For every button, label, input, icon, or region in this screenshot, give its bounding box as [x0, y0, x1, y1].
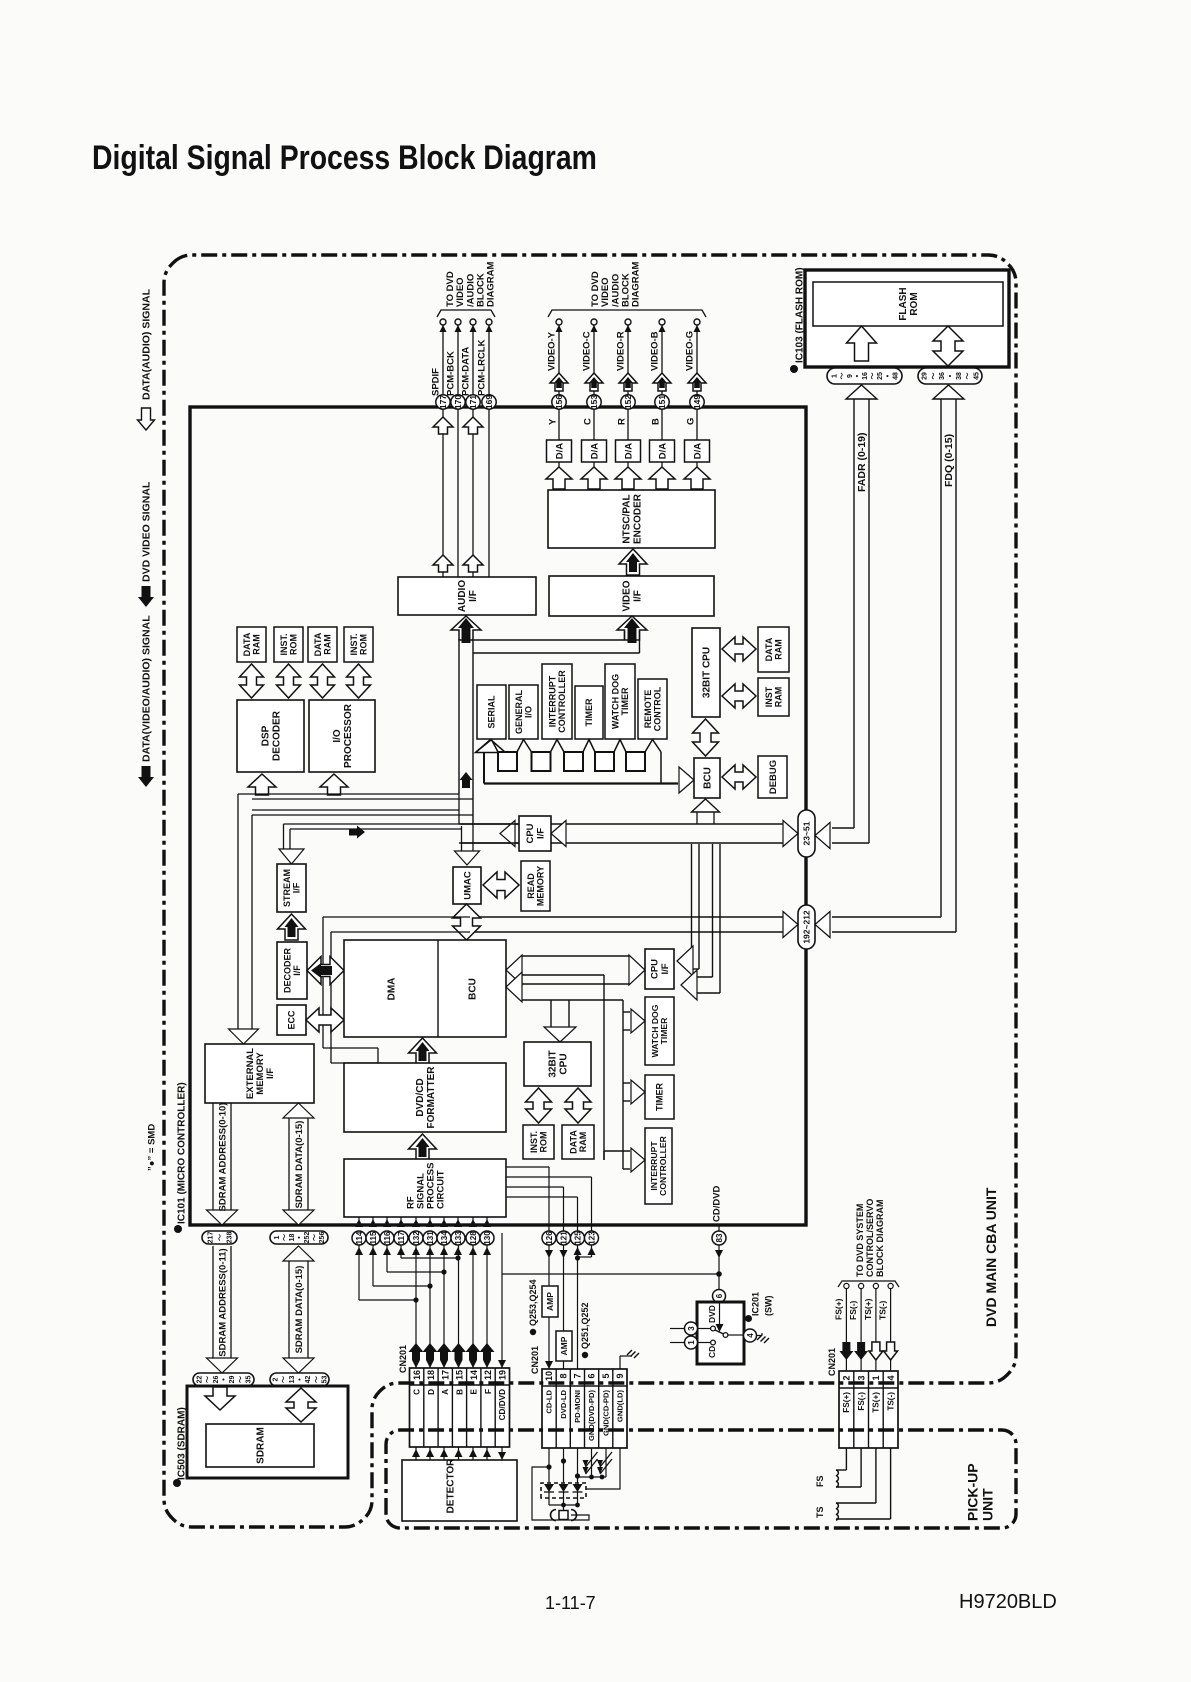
arrowhead under pin 131	[426, 1247, 434, 1255]
svg-text:8: 8	[558, 1373, 568, 1378]
arrowhead bus to left of CPU I/F	[500, 821, 515, 847]
laser diode at col 577.5	[573, 1484, 583, 1492]
arrowhead into 192~212 right	[815, 912, 830, 938]
svg-text:DECODER: DECODER	[272, 710, 283, 761]
svg-text:GND(DVD-PD): GND(DVD-PD)	[587, 1390, 596, 1442]
svg-text:RAM: RAM	[322, 634, 332, 655]
svg-text:16: 16	[412, 1370, 422, 1380]
IC101 micro controller outline	[190, 407, 806, 1225]
svg-text:152: 152	[623, 395, 633, 409]
svg-text:FS(+): FS(+)	[833, 1298, 843, 1320]
arrowhead into UMAC	[455, 851, 480, 865]
terminal circle VIDEO-G	[694, 319, 700, 325]
svg-text:149: 149	[692, 395, 702, 409]
terminal circle PCM-LRCLK	[486, 319, 492, 325]
svg-text:C: C	[582, 418, 593, 425]
block DMA / BCU	[344, 940, 506, 1037]
svg-text:CPU: CPU	[525, 823, 536, 843]
svg-text:53: 53	[322, 1376, 329, 1384]
switch pin 1	[685, 1336, 698, 1349]
arrow 32BIT CPU - INST. ROM	[526, 1088, 552, 1123]
FS coil	[845, 1448, 847, 1470]
block REMOTE CONTROL	[638, 679, 667, 739]
svg-text:6: 6	[715, 1293, 724, 1298]
svg-text:153: 153	[589, 395, 599, 409]
svg-text:D/A: D/A	[657, 443, 668, 460]
svg-text:RAM: RAM	[774, 687, 784, 708]
arrowhead into 23~51 right	[815, 823, 830, 849]
arrowhead under pin 117	[397, 1247, 405, 1255]
bus FDQ elbow to 192-212	[832, 916, 941, 918]
svg-text:192~212: 192~212	[802, 910, 812, 944]
arrow BCU - DEBUG	[722, 765, 756, 789]
svg-text:ENCODER: ENCODER	[633, 493, 644, 544]
block INTERRUPT CONTROLLER (lower)	[645, 1128, 672, 1204]
laser diode at col 563.5	[559, 1484, 569, 1492]
svg-text:NTSC/PAL: NTSC/PAL	[622, 494, 633, 543]
svg-text:Y: Y	[547, 418, 558, 425]
svg-text:UMAC: UMAC	[462, 871, 473, 900]
svg-text:TO DVD SYSTEM: TO DVD SYSTEM	[855, 1204, 865, 1277]
block DATA RAM (DSP)	[237, 627, 266, 662]
wire PCM-LRCLK	[488, 322, 490, 577]
stub RF pin 114	[358, 1217, 360, 1227]
IC503 reference label	[173, 1479, 181, 1487]
terminal circle TS(-)	[888, 1283, 893, 1288]
svg-text:CPU: CPU	[559, 1053, 570, 1074]
block UMAC	[453, 867, 481, 904]
svg-text:38: 38	[956, 372, 963, 380]
black arrow pickup signal col 1	[409, 1343, 424, 1360]
label Q251,Q252	[582, 1352, 588, 1358]
svg-text:217: 217	[208, 1232, 215, 1244]
wire VIDEO-B	[661, 322, 663, 440]
svg-text:FLASH: FLASH	[898, 287, 909, 320]
I/O port square 2	[532, 752, 551, 771]
arrow bus to I/O PROCESSOR	[320, 774, 348, 795]
document code	[959, 1591, 1057, 1614]
block RF SIGNAL PROCESS CIRCUIT	[344, 1159, 506, 1217]
svg-text:16: 16	[862, 372, 869, 380]
branch to 32BIT CPU (lower)	[550, 1000, 552, 1028]
svg-text:3: 3	[687, 1326, 696, 1331]
stub wires to switch pins 3 and 1	[670, 1328, 685, 1330]
branch to TIMER	[623, 1082, 630, 1084]
terminal circle VIDEO-Y	[556, 319, 562, 325]
junction CD/DVD	[716, 1271, 722, 1277]
svg-text:GENERAL: GENERAL	[514, 690, 524, 735]
hollow arrow TS(-)	[884, 1342, 898, 1360]
svg-text:3: 3	[856, 1375, 866, 1380]
switch pin 3	[685, 1322, 698, 1335]
svg-text:121: 121	[559, 1231, 568, 1245]
svg-text:PD-MONI: PD-MONI	[573, 1390, 582, 1423]
arrow DATA RAM to processor	[240, 664, 264, 698]
pin 128	[466, 1231, 480, 1245]
pin 149 (VIDEO-G)	[690, 395, 704, 409]
svg-text:D/A: D/A	[692, 443, 703, 460]
IC103 flash rom outline	[805, 270, 1009, 367]
svg-text:DVD MAIN CBA UNIT: DVD MAIN CBA UNIT	[983, 1187, 999, 1327]
svg-text:I/F: I/F	[292, 965, 302, 976]
svg-text:132: 132	[412, 1231, 421, 1245]
laser diode pack (dashed)	[541, 1483, 586, 1498]
svg-text:26: 26	[213, 1376, 220, 1384]
svg-text:32BIT: 32BIT	[548, 1050, 559, 1077]
svg-text:CONTROLLER: CONTROLLER	[557, 670, 567, 733]
I/O port square 3	[564, 752, 583, 771]
svg-text:4: 4	[746, 1333, 755, 1338]
arrow to AUDIO I/F	[451, 616, 481, 640]
switch common wire from pin 6	[719, 1303, 721, 1325]
svg-text:23~51: 23~51	[802, 821, 812, 845]
svg-text:35: 35	[246, 1376, 253, 1384]
svg-text:FADR (0-19): FADR (0-19)	[856, 432, 868, 492]
block AUDIO I/F	[398, 577, 536, 615]
wire VIDEO-Y	[558, 322, 560, 440]
stub RF pin 133	[457, 1217, 459, 1227]
svg-text:INST: INST	[764, 686, 774, 707]
svg-text:14: 14	[469, 1370, 479, 1380]
block CPU I/F (upper)	[519, 816, 551, 851]
stub RF pin 131	[429, 1217, 431, 1227]
svg-text:Q251,Q252: Q251,Q252	[580, 1302, 590, 1349]
svg-text:1: 1	[274, 1235, 281, 1239]
svg-text:STREAM: STREAM	[282, 869, 292, 907]
svg-text:D/A: D/A	[554, 443, 565, 460]
svg-text:45: 45	[973, 372, 980, 380]
legend arrow DATA(AUDIO) SIGNAL (hollow)	[138, 408, 155, 430]
block GENERAL I/O	[509, 685, 538, 739]
svg-text:PICK-UP: PICK-UP	[964, 1463, 980, 1521]
SDRAM ADDRESS(0-11) bus arrow (external)	[212, 1246, 214, 1359]
svg-text:170: 170	[453, 395, 463, 409]
pin 153 (VIDEO-C)	[587, 395, 601, 409]
IC503 SDRAM outline	[187, 1386, 348, 1478]
svg-text:TIMER: TIMER	[655, 1083, 665, 1111]
pin 114	[352, 1231, 366, 1245]
IC201 reference label	[745, 1315, 752, 1322]
svg-text:GND(LD): GND(LD)	[616, 1390, 625, 1423]
DVD MAIN CBA UNIT dash-dot border	[164, 255, 1016, 1527]
SDRAM ADDRESS(0-10) bus arrow (internal)	[212, 1103, 214, 1211]
pin 169 (PCM-LRCLK)	[482, 395, 496, 409]
svg-text:Q253,Q254: Q253,Q254	[528, 1279, 538, 1326]
PD-MONI wires	[577, 1245, 579, 1369]
svg-text:125: 125	[573, 1231, 582, 1245]
svg-text:114: 114	[355, 1231, 364, 1244]
svg-text:SERIAL: SERIAL	[487, 695, 497, 729]
wire PCM-BCK	[457, 322, 459, 577]
switch pin 4	[744, 1329, 757, 1342]
IC103 reference label	[790, 365, 798, 373]
pin 121	[557, 1231, 571, 1245]
svg-text:READ: READ	[526, 873, 536, 899]
svg-text:10: 10	[544, 1371, 554, 1381]
svg-text:D/A: D/A	[589, 443, 600, 460]
arrow data SDRAM bidirectional	[286, 1388, 316, 1422]
svg-text:RAM: RAM	[774, 639, 784, 660]
column wires down to CN201	[415, 1245, 417, 1368]
PICK-UP UNIT dash-dot border	[386, 1430, 1016, 1528]
block INST. ROM (DSP)	[344, 627, 373, 662]
bus1 DSP/IO horizontal	[238, 793, 459, 795]
bus DMA/BCU down to 32BIT CPU and peripherals	[522, 974, 604, 976]
svg-text:I/F: I/F	[265, 1068, 276, 1079]
svg-text:17: 17	[440, 1370, 450, 1380]
block DATA RAM (upper right)	[758, 627, 789, 672]
arrow 32BIT CPU - INST RAM	[722, 684, 756, 708]
wire FS(-)	[860, 1289, 862, 1371]
svg-text:29: 29	[229, 1376, 236, 1384]
SDRAM DATA(0-15) bus arrow (external)	[288, 1260, 290, 1359]
svg-text:SDRAM DATA(0-15): SDRAM DATA(0-15)	[294, 1266, 305, 1354]
legend arrow DVD VIDEO SIGNAL (solid)	[138, 586, 154, 607]
svg-text:TS(-): TS(-)	[878, 1300, 888, 1320]
block WATCH DOG TIMER	[605, 664, 635, 739]
svg-text:48: 48	[892, 372, 899, 380]
monitor photo component	[559, 1511, 568, 1520]
svg-text:～: ～	[237, 1376, 244, 1383]
bus2 to UMAC	[252, 809, 459, 811]
pin 115	[366, 1231, 380, 1245]
arrow NTSC/PAL to D/A C	[581, 467, 607, 489]
svg-text:252: 252	[304, 1232, 311, 1244]
arrow UMAC - READ MEMORY	[483, 872, 519, 898]
svg-text:123: 123	[587, 1231, 596, 1245]
svg-text:4: 4	[886, 1375, 896, 1380]
svg-text:SDRAM: SDRAM	[256, 1427, 267, 1464]
arrow FDQ flash rom bidirectional	[933, 326, 963, 366]
wires CN201 laser side down	[548, 1448, 550, 1483]
svg-text:CPU: CPU	[650, 959, 661, 979]
black arrow on audio bus	[460, 772, 473, 788]
legend arrow DATA(VIDEO/AUDIO) SIGNAL (solid)	[138, 766, 154, 787]
block TIMER	[575, 686, 603, 739]
block WATCH DOG TIMER (lower)	[645, 997, 674, 1065]
wire CD/DVD select horizontal	[502, 1273, 719, 1275]
svg-text:～: ～	[311, 1234, 318, 1241]
svg-text:CD: CD	[707, 1346, 717, 1358]
bus UMAC/DMA to pins 192-212	[470, 916, 784, 918]
block TIMER (lower)	[645, 1075, 674, 1119]
svg-text:AMP: AMP	[559, 1336, 569, 1355]
stub RF pin 117	[400, 1217, 402, 1227]
svg-text:TS: TS	[815, 1506, 825, 1518]
svg-text:DATA: DATA	[568, 1130, 578, 1154]
svg-text:DECODER: DECODER	[282, 948, 292, 994]
svg-text:CN201: CN201	[530, 1346, 540, 1374]
svg-text:REMOTE: REMOTE	[643, 690, 653, 729]
arrow 32BIT CPU - DATA RAM	[565, 1088, 591, 1123]
laser diode common wires	[549, 1504, 578, 1506]
wire TS(+)	[875, 1289, 877, 1371]
external memory feed shaft	[237, 794, 239, 1030]
svg-text:VIDEO-G: VIDEO-G	[684, 331, 695, 371]
wires RF to laser diode pins	[506, 1166, 549, 1168]
terminal circle FS(-)	[859, 1283, 864, 1288]
svg-text:～: ～	[965, 373, 972, 380]
terminal circle VIDEO-C	[591, 319, 597, 325]
pin 151 (VIDEO-B)	[655, 395, 669, 409]
wire PCM-DATA	[472, 322, 474, 577]
svg-text:～: ～	[930, 373, 937, 380]
svg-text:PCM-BCK: PCM-BCK	[445, 351, 456, 396]
stub RF pin 128	[472, 1217, 474, 1227]
block I/O PROCESSOR	[309, 700, 375, 772]
terminal circle FS(+)	[844, 1283, 849, 1288]
arrow address into SDRAM	[205, 1387, 235, 1410]
svg-text:13: 13	[289, 1376, 296, 1384]
svg-text:UNIT: UNIT	[979, 1488, 995, 1521]
arrowhead into CPU I/F right	[551, 821, 566, 847]
SDRAM DATA(0-15) bus arrow (internal)	[288, 1117, 290, 1212]
svg-text:MEMORY: MEMORY	[535, 866, 545, 906]
wire SPDIF	[442, 322, 444, 577]
svg-text:117: 117	[397, 1231, 406, 1244]
peripheral bus	[484, 782, 678, 784]
arrow DVD/CD FORMATTER to DMA	[409, 1038, 437, 1064]
block EXTERNAL MEMORY I/F	[205, 1044, 314, 1103]
svg-text:FORMATTER: FORMATTER	[426, 1066, 437, 1129]
block INST. ROM (lower)	[523, 1125, 554, 1159]
svg-text:CN201: CN201	[398, 1345, 408, 1373]
svg-text:•: •	[297, 1378, 304, 1381]
terminal circle PCM-DATA	[470, 319, 476, 325]
svg-text:9: 9	[847, 374, 854, 378]
wire TS(-)	[890, 1289, 892, 1371]
svg-text:E: E	[470, 1388, 479, 1394]
arrowhead under pin 128	[469, 1247, 477, 1255]
arrowhead under pin 114	[355, 1247, 363, 1255]
page number	[545, 1593, 596, 1614]
svg-text:I/F: I/F	[633, 590, 644, 602]
pin 125	[571, 1231, 585, 1245]
svg-text:VIDEO-B: VIDEO-B	[649, 331, 660, 371]
SDRAM pin range 2~13 42~53	[270, 1373, 329, 1386]
black arrow FS(+)	[839, 1342, 853, 1360]
D/A converter B	[650, 440, 675, 462]
arrowhead under pin 132	[412, 1247, 420, 1255]
branch to INTERRUPT CONTROLLER	[604, 1150, 630, 1152]
arrow bus to DSP DECODER	[248, 774, 276, 795]
arrow 32BIT CPU - DATA RAM	[722, 637, 756, 661]
svg-text:INST.: INST.	[279, 633, 289, 655]
TS coil	[875, 1448, 877, 1503]
svg-text:～: ～	[870, 373, 877, 380]
svg-text:I/F: I/F	[291, 882, 301, 893]
svg-text:•: •	[296, 1236, 303, 1239]
terminal circle PCM-BCK	[455, 319, 461, 325]
svg-text:TIMER: TIMER	[620, 687, 630, 715]
terminal circle SPDIF	[440, 319, 446, 325]
svg-text:INST.: INST.	[349, 633, 359, 655]
svg-text:TS(+): TS(+)	[872, 1392, 881, 1413]
black arrow pickup signal col 5	[466, 1343, 481, 1360]
svg-text:D/A: D/A	[623, 443, 634, 460]
pin 132	[409, 1231, 423, 1245]
svg-text:TS(+): TS(+)	[863, 1298, 873, 1320]
arrow 32BIT CPU - BCU	[693, 719, 719, 756]
svg-text:1: 1	[687, 1340, 696, 1345]
svg-text:BLOCK DIAGRAM: BLOCK DIAGRAM	[875, 1200, 885, 1278]
svg-text:128: 128	[469, 1231, 478, 1245]
svg-text:IC101 (MICRO CONTROLLER): IC101 (MICRO CONTROLLER)	[177, 1082, 188, 1224]
block 32BIT CPU (upper)	[692, 628, 720, 717]
svg-text:6: 6	[587, 1373, 597, 1378]
svg-text:ROM: ROM	[909, 292, 920, 315]
laser diode at col 549	[544, 1484, 554, 1492]
I/O port square 4	[595, 752, 614, 771]
svg-text:～: ～	[313, 1376, 320, 1383]
svg-text:VIDEO-C: VIDEO-C	[581, 331, 592, 371]
svg-text:R: R	[616, 418, 627, 425]
svg-text:DETECTOR: DETECTOR	[446, 1458, 457, 1514]
svg-text:CD-LD: CD-LD	[545, 1389, 554, 1413]
svg-text:116: 116	[383, 1231, 392, 1244]
svg-text:BCU: BCU	[703, 767, 714, 789]
svg-text:130: 130	[483, 1231, 492, 1245]
CPU I/F left bus lines	[459, 823, 519, 825]
svg-text:I/F: I/F	[468, 590, 479, 602]
bracket for DVD system wires	[838, 1281, 899, 1287]
svg-text:32BIT CPU: 32BIT CPU	[702, 647, 713, 698]
pin 177 (SPDIF)	[436, 395, 450, 409]
svg-text:42: 42	[305, 1376, 312, 1384]
pin 134	[437, 1231, 451, 1245]
svg-text:DATA: DATA	[313, 632, 323, 656]
arrow DECODER I/F to STREAM I/F	[278, 914, 306, 940]
svg-text:133: 133	[454, 1231, 463, 1245]
bracket TO DVD VIDEO/AUDIO BLOCK DIAGRAM (video)	[548, 310, 706, 317]
svg-text:SDRAM DATA(0-15): SDRAM DATA(0-15)	[294, 1121, 305, 1209]
svg-text:”●” = SMD: ”●” = SMD	[146, 1124, 157, 1171]
arrow NTSC/PAL to D/A R	[615, 467, 641, 489]
svg-text:CD/DVD: CD/DVD	[711, 1185, 722, 1222]
svg-text:(SW): (SW)	[764, 1296, 774, 1317]
block 32BIT CPU (lower)	[524, 1042, 591, 1086]
label Q253,Q254	[530, 1329, 536, 1335]
ground GND(LD)	[619, 1356, 621, 1369]
svg-text:CONTROL: CONTROL	[653, 686, 663, 731]
arrowhead under pin 130	[483, 1247, 491, 1255]
arrow INST. ROM to processor	[277, 664, 301, 698]
block DECODER I/F	[277, 942, 307, 999]
staggered wires from pins 114-117 joining columns	[358, 1245, 360, 1300]
bracket TO DVD VIDEO/AUDIO BLOCK DIAGRAM (audio)	[437, 310, 495, 317]
diagonal legs from peripheral blocks	[476, 740, 492, 753]
bus FADR elbow to 23-51	[832, 827, 854, 829]
D/A converter R	[616, 440, 641, 462]
arrow NTSC/PAL to D/A B	[649, 467, 675, 489]
FADR bus shaft	[846, 385, 877, 399]
svg-text:•: •	[885, 374, 892, 377]
arrowhead under pin 115	[369, 1247, 377, 1255]
pin range 192~212	[798, 905, 815, 949]
svg-text:238: 238	[227, 1232, 234, 1244]
svg-text:VIDEO: VIDEO	[622, 580, 633, 611]
I/O port square 1	[498, 752, 517, 771]
arrow NTSC/PAL to D/A G	[684, 467, 710, 489]
svg-text:115: 115	[369, 1231, 378, 1244]
svg-text:WATCH DOG: WATCH DOG	[610, 674, 620, 729]
arrowhead into 192~212 left	[783, 912, 798, 938]
svg-text:FS: FS	[815, 1475, 825, 1487]
amplifier AMP (Q253,Q254)	[542, 1286, 558, 1317]
svg-text:7: 7	[573, 1373, 583, 1378]
bus 192-212 left extension to DVD/CD formatter	[323, 916, 470, 918]
arrowhead into STREAM I/F	[279, 849, 304, 864]
